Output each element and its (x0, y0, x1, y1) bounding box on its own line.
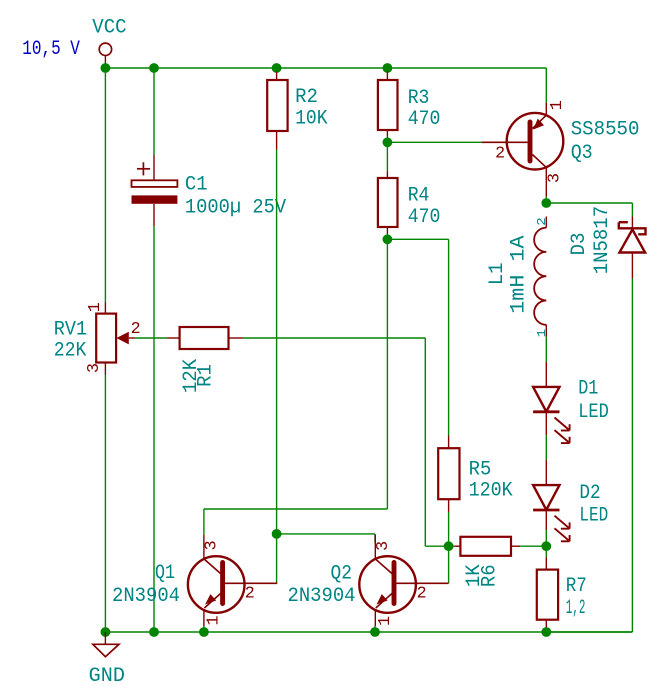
transistor Q2 2N3904 NPN (359, 535, 448, 626)
R5 value label 120K (469, 479, 513, 502)
junction VCC-R3 column (383, 63, 393, 73)
junction GND-R7 bottom (541, 627, 551, 637)
L1 value label 1mH 1A (508, 235, 531, 313)
svg-text:2: 2 (535, 217, 549, 225)
diode D3 1N5817 schottky (619, 217, 646, 279)
resistor R1 (180, 327, 244, 349)
svg-text:2: 2 (495, 145, 505, 164)
svg-text:RV1: RV1 (54, 318, 87, 341)
Q2 pin 2 number (417, 585, 427, 604)
R1 reference label (194, 364, 217, 387)
junction R2-Q1 base-Q2 node (272, 529, 282, 539)
wire D3 cathode-bottom to GND rail (546, 279, 632, 633)
RV1 reference label (54, 318, 87, 341)
wire node to D3 anode-top (546, 203, 632, 217)
R3 value label 470 (408, 108, 441, 131)
svg-text:1: 1 (548, 100, 567, 110)
resistor R2 (267, 72, 287, 150)
Q2 value label 2N3904 (288, 585, 356, 608)
wire Q1 emitter to GND rail (203, 626, 205, 632)
LED D1 (533, 387, 570, 443)
wire L1 to D1 anode (545, 337, 547, 387)
svg-text:SS8550: SS8550 (571, 119, 640, 142)
svg-text:120K: 120K (469, 479, 513, 502)
C1 reference label (185, 174, 208, 197)
svg-text:Q2: Q2 (331, 563, 353, 586)
Q3 value label SS8550 (571, 119, 640, 142)
wire R1 to R5-R6-Q2 node (243, 338, 449, 546)
D1 value label LED (578, 401, 609, 424)
svg-text:3: 3 (374, 541, 393, 551)
R1 value label 12K (180, 359, 203, 393)
wire RV1 wiper to R1 (135, 337, 180, 339)
junction R5-R6 node (444, 541, 454, 551)
Q3 pin 1 number (548, 100, 567, 110)
svg-text:R2: R2 (295, 86, 318, 109)
svg-text:2: 2 (417, 585, 427, 604)
resistor R6 (449, 537, 547, 556)
svg-text:R6: R6 (478, 564, 501, 587)
svg-text:Q1: Q1 (155, 562, 175, 585)
resistor R4 (378, 142, 398, 233)
junction R4 bottom node (383, 234, 393, 244)
D3 reference label (568, 233, 591, 256)
RV1 value label 22K (54, 339, 87, 362)
wire VCC to C1 plus pin (153, 68, 155, 180)
wire D2 cathode to R6-R7 node (545, 511, 547, 546)
Q3 pin 2 number (495, 145, 505, 164)
L1 pin 1 number (535, 329, 549, 337)
junction GND-Q2 emitter (370, 627, 380, 637)
wire R4 node down to Q1 collector (204, 239, 388, 535)
power symbol VCC (92, 17, 126, 68)
Q3 pin 3 number (546, 173, 565, 183)
resistor R7 (537, 546, 558, 632)
junction GND-RV1 column (101, 627, 111, 637)
svg-text:D3: D3 (568, 233, 591, 256)
svg-text:1mH 1A: 1mH 1A (508, 235, 531, 313)
svg-text:22K: 22K (54, 339, 87, 362)
D2 value label LED (579, 505, 608, 528)
svg-text:1: 1 (205, 616, 224, 626)
C1 value label 1000u 25V (185, 197, 286, 220)
svg-text:VCC: VCC (92, 17, 126, 40)
R7 value label 1,2 (566, 597, 586, 620)
svg-text:R5: R5 (469, 459, 492, 482)
wire Q2 emitter to GND rail (374, 626, 376, 632)
R7 reference label (566, 575, 587, 598)
wire node to Q3 base (387, 141, 481, 143)
power symbol GND (89, 632, 125, 688)
inductor L1 (534, 217, 546, 337)
Q2 pin 3 number (374, 541, 393, 551)
wire node down to Q2 base (448, 546, 450, 583)
svg-text:1,2: 1,2 (566, 597, 586, 620)
RV1 pin 3 number (85, 363, 104, 373)
resistor R3 (378, 72, 398, 137)
wire node down to Q1 base (276, 534, 278, 583)
svg-text:R7: R7 (566, 575, 587, 598)
svg-text:1N5817: 1N5817 (591, 206, 614, 274)
junction Q3-L1-D3 node (541, 198, 551, 208)
svg-text:3: 3 (546, 173, 565, 183)
wire D1 cathode to D2 anode (545, 413, 547, 485)
wire node to Q2 collector (277, 534, 375, 543)
svg-text:LED: LED (579, 505, 608, 528)
Q2 reference label (331, 563, 353, 586)
svg-text:1: 1 (86, 302, 105, 312)
R6 reference label (478, 564, 501, 587)
LED D2 (533, 485, 570, 541)
svg-text:10,5 V: 10,5 V (22, 38, 80, 61)
wire R3 bottom to node (386, 137, 388, 143)
RV1 pin 1 number (86, 302, 105, 312)
svg-text:3: 3 (203, 540, 222, 550)
wire R4 node to R5 top (387, 234, 448, 449)
wire R5 bottom to node (448, 512, 450, 546)
label 10,5 V supply voltage (22, 38, 80, 61)
transistor Q1 2N3904 NPN (188, 535, 277, 626)
D3 value label 1N5817 (591, 206, 614, 274)
L1 reference label (486, 263, 509, 286)
D2 reference label (579, 482, 600, 505)
svg-text:3: 3 (85, 363, 104, 373)
wire R2 bottom to junction node (276, 150, 278, 534)
transistor Q3 SS8550 PNP (482, 103, 564, 197)
D1 reference label (578, 378, 598, 401)
svg-text:1000µ 25V: 1000µ 25V (185, 197, 286, 220)
R6 value label 1K (463, 564, 486, 587)
Q2 pin 1 number (376, 616, 395, 626)
junction GND-C1 column (149, 627, 159, 637)
wire C1 minus pin to GND rail (153, 204, 155, 632)
Q1 pin 2 number (245, 585, 255, 604)
R5 reference label (469, 459, 492, 482)
svg-text:470: 470 (408, 206, 441, 229)
svg-text:1: 1 (376, 616, 395, 626)
R2 value label 10K (295, 107, 328, 130)
junction VCC-C1 column (149, 63, 159, 73)
net VCC power rail (top) (105, 67, 546, 69)
svg-text:470: 470 (408, 108, 441, 131)
svg-text:Q3: Q3 (571, 142, 593, 165)
svg-text:D1: D1 (578, 378, 598, 401)
junction VCC-R2 column (272, 63, 282, 73)
svg-text:R1: R1 (194, 364, 217, 387)
Q1 reference label (155, 562, 175, 585)
resistor R5 (438, 448, 459, 512)
wire VCC to RV1 pin1 (104, 68, 106, 314)
R3 reference label (408, 87, 430, 110)
svg-text:1: 1 (535, 329, 549, 337)
RV1 pin 2 number (131, 320, 141, 339)
L1 pin 2 number (535, 217, 549, 225)
R4 reference label (408, 185, 430, 208)
svg-text:C1: C1 (185, 174, 208, 197)
capacitor C1 (132, 162, 178, 203)
svg-text:2: 2 (245, 585, 255, 604)
Q3 reference label (571, 142, 593, 165)
svg-text:10K: 10K (295, 107, 328, 130)
wire RV1 pin3 to GND rail (104, 375, 106, 633)
svg-text:D2: D2 (579, 482, 600, 505)
potentiometer RV1 22K (96, 314, 134, 375)
svg-text:GND: GND (89, 665, 125, 688)
svg-text:2N3904: 2N3904 (288, 585, 356, 608)
Q1 value label 2N3904 (112, 585, 180, 608)
svg-text:R3: R3 (408, 87, 430, 110)
svg-text:LED: LED (578, 401, 609, 424)
junction GND-Q1 emitter (199, 627, 209, 637)
svg-text:L1: L1 (486, 263, 509, 286)
Q1 pin 1 number (205, 616, 224, 626)
svg-text:2: 2 (131, 320, 141, 339)
wire Q3 collector to L1/D3 node (545, 68, 547, 203)
junction R6-R7-D2 node (541, 541, 551, 551)
junction VCC-RV1 column (101, 63, 111, 73)
R4 value label 470 (408, 206, 441, 229)
junction R3-R4-Q3 base node (383, 137, 393, 147)
svg-text:R4: R4 (408, 185, 430, 208)
net GND rail (bottom) (105, 631, 632, 633)
R2 reference label (295, 86, 318, 109)
svg-text:2N3904: 2N3904 (112, 585, 180, 608)
Q1 pin 3 number (203, 540, 222, 550)
